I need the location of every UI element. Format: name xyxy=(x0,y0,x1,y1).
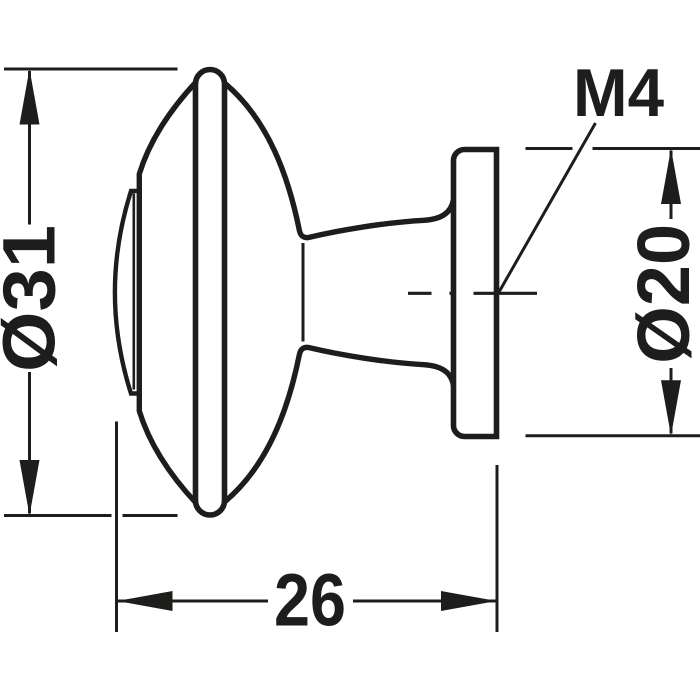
Ø20 dimension line xyxy=(670,151,673,434)
centerline dash B xyxy=(450,292,455,295)
Ø31 arrowhead down xyxy=(20,460,40,516)
base plate (Ø20 cylinder flange, rounded left corners) xyxy=(454,150,497,437)
Ø20 top extension line (gap at leader crossing) xyxy=(526,147,700,150)
thin rim edge line on face xyxy=(133,194,136,390)
svg-text:Ø31: Ø31 xyxy=(0,225,71,372)
Ø20 bottom extension line xyxy=(526,434,700,437)
Ø31 arrowhead up xyxy=(20,69,40,125)
knob head left silhouette (top arc, flat rim, bottom arc) xyxy=(139,82,196,504)
Ø31 dimension line xyxy=(28,71,31,514)
Ø31 top extension line xyxy=(4,68,178,71)
Ø20 arrowhead down xyxy=(661,380,681,436)
26 dimension line xyxy=(118,600,496,603)
neck/head junction edge line xyxy=(302,243,305,342)
neck bottom edge into base (mirror) xyxy=(225,347,454,502)
centerline dash A xyxy=(408,292,432,295)
26 arrowhead right xyxy=(441,591,497,611)
Ø31 bottom extension line (gap at 26-extension crossing) xyxy=(4,514,178,517)
26 right extension line xyxy=(496,465,499,632)
svg-text:26: 26 xyxy=(274,559,346,642)
knob head inner cap stadium (two vertical face lines with rounded ends) xyxy=(196,70,225,516)
svg-text:M4: M4 xyxy=(573,55,664,131)
26 arrowhead left xyxy=(117,591,173,611)
Ø20 arrowhead up xyxy=(661,149,681,205)
svg-text:Ø20: Ø20 xyxy=(622,224,700,364)
centerline dash C xyxy=(474,292,538,295)
knob head right silhouette + neck top edge into base xyxy=(225,83,454,238)
domed front face arc of head xyxy=(115,191,139,394)
M4 leader line xyxy=(499,123,596,293)
26 left extension line xyxy=(115,422,118,633)
